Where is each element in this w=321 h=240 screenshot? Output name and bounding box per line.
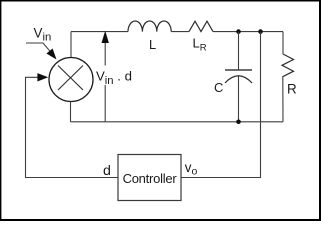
resistor LR (series resistance of L) <box>189 21 213 31</box>
node dot: vo sense junction <box>258 29 263 34</box>
arrowhead: d into multiplier <box>37 73 48 81</box>
capacitor C plates <box>225 69 252 71</box>
node dot: capacitor bottom junction <box>236 120 241 125</box>
inductor L <box>128 21 171 32</box>
multiplier U1 circle <box>49 58 93 102</box>
capacitor C top lead <box>238 32 240 70</box>
controller box <box>118 155 181 201</box>
wire: d feedback, controller to multiplier <box>26 77 119 177</box>
arrowhead: Vin into multiplier <box>46 49 56 60</box>
wire: multiplier top lead <box>70 32 72 58</box>
svg-text:L: L <box>149 37 156 52</box>
svg-text:R: R <box>287 82 297 97</box>
label Vin.d <box>96 66 136 86</box>
svg-text:d: d <box>103 163 111 179</box>
capacitor C bottom lead <box>238 76 240 122</box>
wire: top rail left segment (corner above multiplier to inductor) <box>71 31 128 33</box>
resistor R bottom lead <box>282 77 284 122</box>
wire: Vin input lead <box>26 43 51 52</box>
svg-text:C: C <box>214 80 223 95</box>
arrowhead: Vin.d pointing up <box>102 31 109 43</box>
multiplier X <box>58 66 83 91</box>
wire: Vin.d arrow line <box>104 42 106 122</box>
svg-text:Controller: Controller <box>123 171 178 186</box>
wire: bottom rail <box>71 121 284 123</box>
wire: LR to right corner on top rail <box>213 31 283 33</box>
border frame <box>0 0 321 2</box>
wire: multiplier bottom lead <box>70 102 72 122</box>
resistor R zigzag <box>282 54 294 77</box>
wire: vo sense line down and into controller <box>181 32 261 178</box>
wire: between L and LR <box>171 31 189 33</box>
node dot: capacitor top junction <box>236 29 241 34</box>
resistor R top lead <box>282 32 284 54</box>
